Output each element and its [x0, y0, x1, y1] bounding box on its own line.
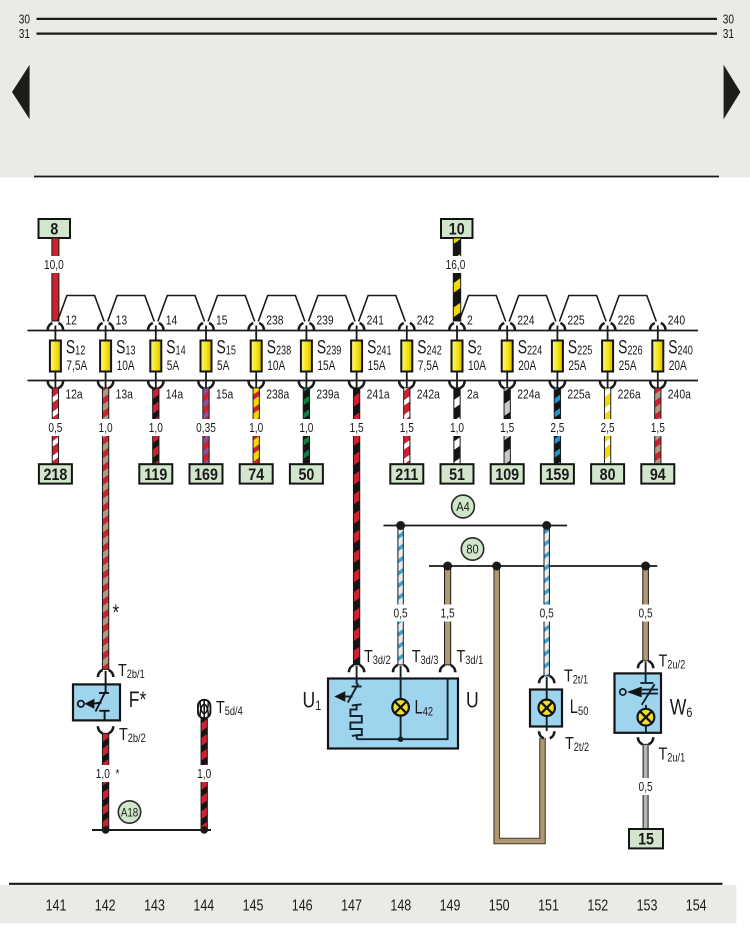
wire 238a [253, 388, 259, 464]
top band bottom border [34, 176, 719, 178]
svg-text:1,0: 1,0 [450, 421, 465, 435]
svg-text:10: 10 [449, 220, 465, 238]
svg-text:225: 225 [567, 312, 585, 328]
fuse bus top rail [28, 330, 699, 332]
wire 240a [655, 388, 661, 464]
jumper bridge 12-13 [57, 296, 104, 322]
wire 10,0 red from terminal 8 to fuse S12 [52, 238, 59, 321]
lamp L50 box [530, 690, 562, 727]
svg-text:1,5: 1,5 [441, 606, 455, 620]
svg-text:211: 211 [395, 466, 418, 484]
wire grey 0,5 from T2u/1 to terminal 15 [643, 744, 648, 829]
junction dots on A4 bus [396, 521, 405, 530]
wire blue/white 0,5 from A4 to T3d/3 [398, 526, 403, 665]
svg-text:10A: 10A [267, 357, 285, 373]
svg-text:142: 142 [95, 897, 116, 915]
terminal 8 [39, 219, 71, 238]
svg-text:224a: 224a [517, 386, 540, 402]
svg-text:0,35: 0,35 [196, 421, 216, 435]
left continuation arrow [12, 65, 30, 119]
svg-text:1,0: 1,0 [197, 767, 212, 781]
wire brown 1,5 from 80 to T3d/1 [445, 566, 451, 665]
connector T2b/1 [98, 670, 113, 677]
wire 242a [404, 388, 410, 464]
svg-text:80: 80 [600, 466, 616, 484]
svg-text:152: 152 [587, 897, 608, 915]
terminal 159 [541, 464, 574, 483]
jumper bridge 238-239 [258, 296, 305, 322]
wire 13a [102, 388, 108, 670]
terminal 119 [139, 464, 172, 483]
wire 12a [52, 388, 58, 464]
lamp L50 bulb [539, 700, 555, 716]
connector T2b/2 [98, 726, 113, 733]
bus 30 [37, 18, 718, 20]
svg-text:50: 50 [298, 466, 314, 484]
right continuation arrow [724, 65, 741, 119]
svg-text:20A: 20A [669, 357, 687, 373]
svg-text:14a: 14a [166, 386, 184, 402]
connector T3d/2 [349, 665, 364, 672]
svg-text:15: 15 [216, 312, 228, 328]
svg-text:241a: 241a [367, 386, 390, 402]
junction dots on 80 bus [443, 562, 452, 571]
svg-text:15: 15 [638, 831, 654, 849]
svg-text:241: 241 [367, 312, 385, 328]
terminal 80 [591, 464, 624, 483]
wire brown loop from 80 to T2t/2 [497, 566, 543, 841]
jumper bridge 224-225 [509, 296, 556, 322]
svg-text:154: 154 [686, 897, 707, 915]
svg-text:224: 224 [517, 312, 535, 328]
fuse S224 20A [500, 312, 543, 402]
svg-text:A18: A18 [121, 807, 138, 820]
W6 internals: switch and lamp [620, 662, 658, 733]
svg-text:20A: 20A [518, 357, 536, 373]
terminal 10 [441, 219, 473, 238]
wire blue/white 0,5 from A4 to T2t/1 [544, 526, 549, 676]
node A18 ground point [118, 801, 140, 823]
svg-text:13a: 13a [116, 386, 134, 402]
wire red/black 1,0 from T5d/4 to ground A18 [201, 718, 207, 830]
fuse S15 5A [198, 312, 236, 402]
svg-text:238: 238 [266, 312, 284, 328]
wire red/black 1,0 from T2b/2 to ground A18 [102, 733, 108, 830]
connector T5d/4 [198, 700, 210, 718]
svg-text:0,5: 0,5 [540, 606, 554, 620]
fuse S12 7,5A [48, 312, 88, 402]
connector T2u/1 [638, 737, 653, 744]
wire 239a [303, 388, 309, 464]
bus 31 [37, 32, 718, 34]
node A4 (plus connection) [452, 495, 475, 518]
svg-text:U: U [466, 689, 479, 713]
svg-text:31: 31 [19, 27, 30, 41]
wire 2a [454, 388, 460, 464]
svg-text:239a: 239a [316, 386, 339, 402]
terminal 169 [190, 464, 223, 483]
svg-text:30: 30 [19, 12, 31, 26]
terminal 94 [641, 464, 674, 483]
svg-text:14: 14 [166, 312, 178, 328]
wire 241a [353, 388, 359, 665]
svg-text:159: 159 [545, 466, 569, 484]
bus 80 [429, 565, 657, 567]
component W6 box [615, 673, 662, 732]
svg-text:151: 151 [538, 897, 559, 915]
svg-text:242: 242 [417, 312, 435, 328]
terminal 15 [629, 829, 663, 848]
jumper bridge 239-241 [308, 296, 355, 322]
svg-text:10A: 10A [117, 357, 135, 373]
connector T2t/1 [539, 676, 554, 683]
svg-text:1,5: 1,5 [500, 421, 514, 435]
svg-text:74: 74 [248, 466, 264, 484]
svg-text:144: 144 [193, 897, 214, 915]
svg-text:0,5: 0,5 [48, 421, 62, 435]
wire 225a [554, 388, 560, 464]
wire brown 0,5 from 80 to T2u/2 [643, 566, 649, 661]
svg-text:1,0: 1,0 [149, 421, 164, 435]
jumper bridge 14-15 [158, 296, 205, 322]
svg-text:2: 2 [467, 312, 473, 328]
node 80 (plus connection) [461, 538, 483, 560]
jumper bridge 241-242 [359, 296, 406, 322]
terminal 109 [491, 464, 524, 483]
svg-text:2,5: 2,5 [601, 421, 615, 435]
svg-text:226: 226 [618, 312, 636, 328]
svg-text:119: 119 [144, 466, 167, 484]
fuse S225 25A [550, 312, 593, 402]
wire 224a [504, 388, 510, 464]
connector T2u/2 [638, 661, 653, 668]
svg-text:1,0: 1,0 [299, 421, 314, 435]
svg-text:240: 240 [668, 312, 686, 328]
svg-text:10A: 10A [468, 357, 486, 373]
svg-text:80: 80 [466, 542, 479, 557]
F* switch internals [78, 671, 110, 720]
svg-text:146: 146 [292, 897, 313, 915]
gauge labels mid row [389, 605, 413, 622]
svg-text:15A: 15A [368, 357, 386, 373]
jumper bridge 226-240 [610, 296, 657, 322]
svg-text:F*: F* [129, 688, 147, 712]
fuse S14 5A [148, 312, 186, 402]
fuse S242 7,5A [399, 312, 442, 402]
terminal 74 [240, 464, 273, 483]
svg-text:15A: 15A [317, 357, 335, 373]
U1 internals: plug contact and heating element [345, 666, 447, 739]
svg-text:1,0: 1,0 [99, 421, 114, 435]
svg-text:225a: 225a [567, 386, 590, 402]
terminal 211 [390, 464, 423, 483]
svg-text:1,0: 1,0 [249, 421, 264, 435]
svg-text:30: 30 [723, 12, 735, 26]
svg-text:1,5: 1,5 [350, 421, 364, 435]
top band background [0, 0, 750, 178]
svg-text:0,5: 0,5 [639, 606, 653, 620]
fuse S240 20A [650, 312, 693, 402]
fuse S2 10A [449, 312, 486, 402]
lamp in W6 [638, 709, 655, 726]
svg-text:10,0: 10,0 [44, 258, 64, 272]
svg-text:*: * [113, 601, 120, 626]
fuse S226 25A [600, 312, 643, 402]
svg-text:15a: 15a [216, 386, 234, 402]
svg-text:238a: 238a [266, 386, 289, 402]
svg-text:148: 148 [390, 897, 411, 915]
bus A4 [384, 525, 568, 527]
svg-text:141: 141 [46, 897, 67, 915]
fuse S241 15A [349, 312, 392, 402]
wire 16,0 black/yellow from terminal 10 to fuse S2 [453, 238, 460, 321]
svg-text:1,5: 1,5 [651, 421, 665, 435]
terminal 50 [290, 464, 323, 483]
jumper bridge 15-238 [208, 296, 255, 322]
connector T3d/1 [440, 665, 455, 672]
svg-text:242a: 242a [417, 386, 440, 402]
svg-text:8: 8 [50, 220, 58, 238]
svg-text:147: 147 [341, 897, 362, 915]
svg-text:A4: A4 [456, 499, 470, 514]
svg-text:1,5: 1,5 [400, 421, 414, 435]
component F* box [73, 684, 120, 720]
svg-text:0,5: 0,5 [394, 606, 408, 620]
fuse bus bottom rail [28, 380, 699, 382]
svg-text:1,0 *: 1,0 * [96, 767, 120, 781]
svg-text:226a: 226a [618, 386, 641, 402]
svg-text:12a: 12a [65, 386, 83, 402]
svg-text:2a: 2a [467, 386, 479, 402]
svg-text:239: 239 [316, 312, 334, 328]
connector T2t/2 [539, 731, 554, 738]
svg-text:169: 169 [194, 466, 218, 484]
svg-text:2,5: 2,5 [550, 421, 564, 435]
terminal 218 [39, 464, 72, 483]
svg-text:143: 143 [144, 897, 165, 915]
svg-text:153: 153 [637, 897, 658, 915]
wire 15a [203, 388, 209, 464]
svg-text:94: 94 [650, 466, 666, 484]
jumper bridge 13-14 [108, 296, 155, 322]
connector T3d/3 [393, 665, 408, 672]
ground rail A18 [92, 829, 211, 831]
svg-text:240a: 240a [668, 386, 691, 402]
svg-text:25A: 25A [619, 357, 637, 373]
wire 226a [604, 388, 610, 464]
jumper bridge 2-224 [459, 296, 506, 322]
svg-text:51: 51 [449, 466, 465, 484]
bottom band background [0, 885, 736, 924]
svg-text:16,0: 16,0 [446, 258, 466, 272]
svg-text:31: 31 [723, 27, 734, 41]
svg-text:13: 13 [116, 312, 128, 328]
svg-text:0,5: 0,5 [639, 780, 653, 794]
svg-text:25A: 25A [568, 357, 586, 373]
svg-text:7,5A: 7,5A [66, 357, 87, 373]
svg-text:7,5A: 7,5A [418, 357, 439, 373]
svg-text:12: 12 [65, 312, 77, 328]
component U1 cigarette lighter box [328, 679, 458, 749]
jumper bridge 225-226 [559, 296, 606, 322]
svg-text:5A: 5A [167, 357, 179, 373]
svg-text:218: 218 [43, 466, 67, 484]
svg-text:145: 145 [243, 897, 264, 915]
fuse S238 10A [249, 312, 292, 402]
svg-text:5A: 5A [217, 357, 229, 373]
wire 14a [153, 388, 159, 464]
bottom band border [9, 883, 723, 885]
svg-text:150: 150 [489, 897, 510, 915]
lamp L42 [392, 699, 409, 716]
terminal 51 [441, 464, 474, 483]
track numbers 141-154 [46, 897, 707, 915]
fuse S13 10A [98, 312, 136, 402]
svg-text:149: 149 [440, 897, 461, 915]
fuse S239 15A [299, 312, 342, 402]
svg-text:109: 109 [495, 466, 519, 484]
